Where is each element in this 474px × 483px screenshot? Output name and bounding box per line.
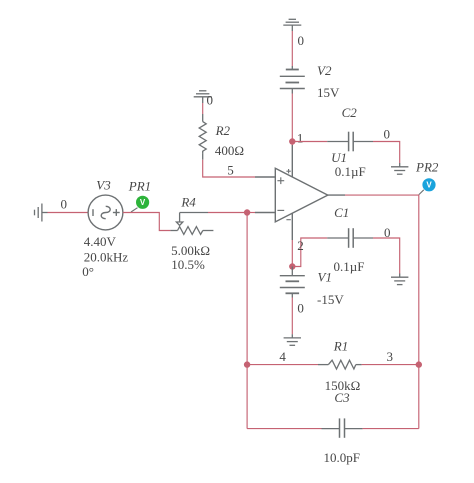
op-amp minus input marker [277, 209, 284, 211]
svg-text:U1: U1 [331, 150, 347, 165]
wire node to op-amp minus input [247, 212, 255, 214]
svg-text:5: 5 [227, 163, 234, 178]
battery V2 [280, 66, 305, 94]
svg-text:0: 0 [60, 197, 67, 212]
svg-text:-15V: -15V [317, 292, 344, 307]
svg-text:400Ω: 400Ω [215, 143, 244, 158]
wire net5: R2 to op-amp plus input [203, 160, 255, 177]
wire net0: ground to V3 [48, 212, 89, 214]
wire V2 to node 1 [291, 94, 293, 142]
svg-text:2: 2 [297, 238, 304, 253]
battery V1 [280, 267, 305, 298]
svg-text:0: 0 [384, 225, 391, 240]
ground GND-C2 [391, 163, 408, 174]
wire ground to V2 [291, 31, 293, 66]
resistor R2 [199, 114, 206, 160]
svg-text:V2: V2 [317, 63, 332, 78]
svg-text:C3: C3 [334, 390, 350, 405]
node junction at R4/op-amp minus [244, 209, 250, 215]
wire right rail bottom [418, 365, 420, 429]
capacitor C2 [327, 132, 373, 152]
svg-text:PR2: PR2 [415, 160, 439, 175]
ground GND-V1 [284, 334, 301, 345]
svg-text:V1: V1 [318, 269, 332, 284]
wire C1 to ground [373, 238, 400, 274]
wire node2 elbow to C1 [292, 238, 327, 267]
op-amp V+ marker [286, 169, 290, 173]
svg-text:0: 0 [297, 301, 304, 316]
svg-text:R2: R2 [215, 123, 231, 138]
wire node1 to C2 [292, 141, 327, 143]
probe PR2 [422, 178, 435, 191]
ground GND-V2 (pointing up, top) [283, 19, 301, 31]
wire op-amp V- pin to node 2 [291, 240, 293, 267]
svg-text:0: 0 [298, 33, 305, 48]
svg-text:4: 4 [279, 349, 286, 364]
probe PR1 [136, 196, 149, 209]
node 3 junction [416, 361, 422, 367]
svg-text:V3: V3 [96, 178, 111, 193]
ground GND-R2 (pointing up) [194, 91, 212, 103]
svg-text:0°: 0° [82, 264, 94, 279]
svg-text:0: 0 [384, 127, 391, 142]
wire bottom left to C3 [247, 428, 321, 430]
potentiometer R4 [170, 213, 213, 235]
svg-text:C2: C2 [342, 105, 358, 120]
ground GND-left (source ground, rotated left) [35, 204, 48, 222]
svg-text:V: V [140, 198, 146, 207]
probe PR1 pointer [131, 208, 138, 212]
svg-text:0.1µF: 0.1µF [334, 259, 365, 274]
op-amp plus input marker [277, 177, 284, 184]
svg-text:5.00kΩ: 5.00kΩ [171, 243, 210, 258]
wire node4 to R1 [247, 364, 318, 366]
wire ground to R2 [202, 103, 204, 114]
svg-text:R4: R4 [180, 194, 196, 209]
resistor R1 [318, 360, 362, 369]
op-amp V- marker [286, 219, 290, 221]
svg-text:10.0pF: 10.0pF [324, 450, 360, 465]
AC source V3 [88, 195, 123, 230]
wire V1 to ground [291, 298, 293, 335]
wire C3 to right rail [363, 428, 419, 430]
svg-text:0: 0 [207, 93, 214, 108]
svg-text:20.0kHz: 20.0kHz [84, 249, 129, 264]
probe PR2 pointer [419, 190, 424, 195]
svg-text:4.40V: 4.40V [84, 234, 117, 249]
svg-text:0.1µF: 0.1µF [335, 164, 366, 179]
node 1 junction [289, 138, 295, 144]
op-amp U1 [255, 145, 345, 240]
svg-text:C1: C1 [334, 205, 349, 220]
wire V3 to R4 [123, 213, 170, 231]
wire node1 to op-amp V+ pin [291, 142, 293, 146]
capacitor C1 [327, 228, 373, 248]
svg-text:1: 1 [297, 131, 304, 146]
wire C2 to ground [373, 142, 400, 164]
svg-text:PR1: PR1 [128, 178, 151, 193]
svg-text:3: 3 [387, 349, 394, 364]
wire op-amp output to right rail [345, 195, 419, 365]
svg-text:15V: 15V [317, 85, 340, 100]
capacitor C3 [322, 418, 363, 437]
ground GND-C1 [391, 274, 408, 285]
wire left feedback rail [246, 213, 248, 429]
wire R1 to node 3 [362, 364, 419, 366]
wire R4 wiper to node [208, 212, 247, 214]
node 2 junction [289, 263, 295, 269]
node 4 junction [244, 361, 250, 367]
svg-text:10.5%: 10.5% [171, 257, 205, 272]
svg-text:R1: R1 [333, 339, 348, 354]
svg-text:V: V [426, 181, 432, 190]
